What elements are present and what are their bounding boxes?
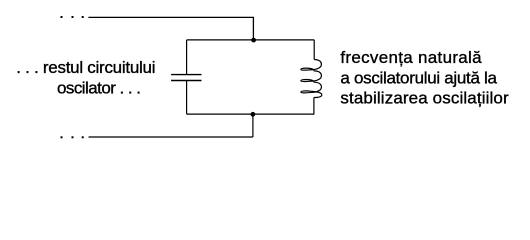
svg-text:oscilator . . .: oscilator . . .	[57, 79, 140, 98]
svg-text:a oscilatorului ajută la: a oscilatorului ajută la	[340, 69, 497, 88]
svg-text:stabilizarea oscilațiilor: stabilizarea oscilațiilor	[340, 89, 509, 108]
svg-text:frecvența naturală: frecvența naturală	[340, 48, 482, 67]
svg-text:. . . restul circuitului: . . . restul circuitului	[16, 58, 155, 77]
